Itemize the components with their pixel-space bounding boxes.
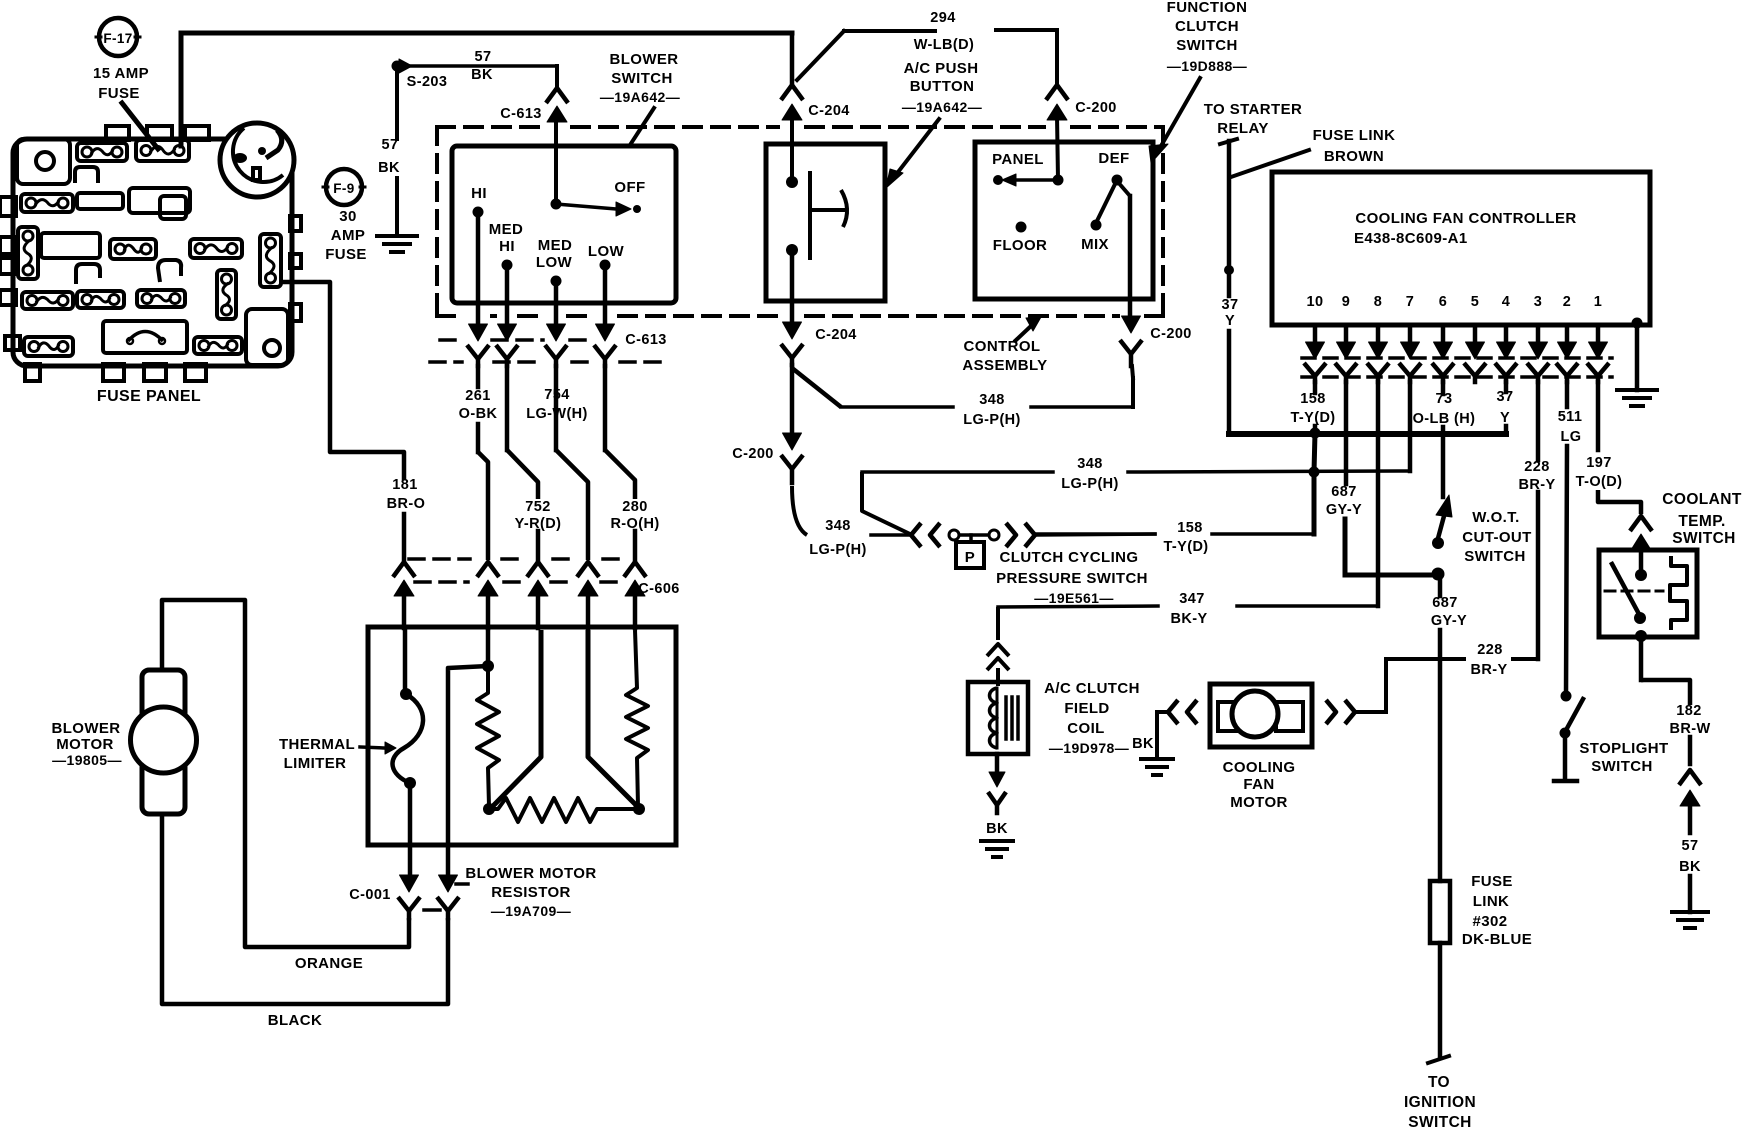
svg-text:F-9: F-9 [333,181,354,196]
svg-text:BROWN: BROWN [1324,148,1384,165]
svg-text:197: 197 [1586,455,1611,471]
svg-text:SWITCH: SWITCH [1176,37,1238,54]
svg-text:752: 752 [525,499,550,515]
svg-text:P: P [965,549,975,566]
svg-text:COOLING: COOLING [1223,759,1296,776]
svg-text:2: 2 [1563,294,1571,310]
svg-text:C-606: C-606 [638,581,680,597]
svg-text:228: 228 [1477,642,1502,658]
svg-text:228: 228 [1524,459,1549,475]
svg-text:LG-P(H): LG-P(H) [809,542,867,558]
svg-text:BK: BK [378,160,400,176]
svg-text:348: 348 [825,518,850,534]
svg-text:LG-P(H): LG-P(H) [1061,476,1119,492]
svg-text:F-17: F-17 [103,31,132,46]
svg-text:6: 6 [1439,294,1447,310]
svg-text:158: 158 [1177,520,1202,536]
svg-text:BK: BK [471,67,493,83]
svg-text:SWITCH: SWITCH [611,70,673,87]
svg-text:SWITCH: SWITCH [1672,530,1736,547]
svg-text:C-613: C-613 [625,332,667,348]
svg-text:C-200: C-200 [732,446,774,462]
svg-text:182: 182 [1676,703,1701,719]
svg-text:CLUTCH CYCLING: CLUTCH CYCLING [1000,549,1139,566]
svg-text:TO: TO [1428,1074,1450,1091]
svg-text:O-LB (H): O-LB (H) [1413,411,1476,427]
svg-text:1: 1 [1594,294,1602,310]
svg-text:LG-P(H): LG-P(H) [963,412,1021,428]
svg-text:GY-Y: GY-Y [1326,502,1362,518]
svg-text:261: 261 [465,388,490,404]
svg-text:W-LB(D): W-LB(D) [914,37,974,53]
svg-text:CUT-OUT: CUT-OUT [1462,529,1531,546]
svg-text:FUSE LINK: FUSE LINK [1313,127,1396,144]
svg-text:HI: HI [471,185,487,202]
svg-text:57: 57 [1682,838,1699,854]
svg-text:3: 3 [1534,294,1542,310]
svg-text:E438-8C609-A1: E438-8C609-A1 [1354,230,1468,247]
svg-text:#302: #302 [1473,913,1508,930]
svg-text:R-O(H): R-O(H) [610,516,659,532]
svg-text:T-Y(D): T-Y(D) [1290,410,1335,426]
svg-text:TO STARTER: TO STARTER [1204,101,1302,118]
svg-text:IGNITION: IGNITION [1404,1094,1476,1111]
svg-text:687: 687 [1432,595,1457,611]
svg-text:STOPLIGHT: STOPLIGHT [1579,740,1668,757]
svg-text:FUSE: FUSE [325,246,367,263]
svg-text:AMP: AMP [331,227,366,244]
svg-text:C-204: C-204 [815,327,857,343]
svg-text:FUSE: FUSE [1471,873,1513,890]
svg-text:BLOWER: BLOWER [51,720,120,737]
svg-text:T-Y(D): T-Y(D) [1163,539,1208,555]
svg-text:BK: BK [1679,859,1701,875]
svg-text:CONTROL: CONTROL [964,338,1041,355]
svg-text:LINK: LINK [1473,893,1510,910]
svg-text:A/C CLUTCH: A/C CLUTCH [1044,680,1140,697]
svg-text:Y-R(D): Y-R(D) [515,516,562,532]
svg-text:C-613: C-613 [500,106,542,122]
svg-text:RELAY: RELAY [1217,120,1268,137]
svg-text:Y: Y [1500,410,1510,426]
svg-text:348: 348 [979,392,1004,408]
svg-text:30: 30 [339,208,357,225]
svg-text:FIELD: FIELD [1064,700,1109,717]
svg-text:—19A709—: —19A709— [491,903,571,919]
svg-text:8: 8 [1374,294,1382,310]
svg-text:—19E561—: —19E561— [1034,590,1113,606]
svg-text:BK: BK [986,821,1008,837]
svg-text:FLOOR: FLOOR [993,237,1048,254]
svg-text:LOW: LOW [536,254,573,271]
svg-text:O-BK: O-BK [459,406,498,422]
svg-text:294: 294 [930,10,955,26]
svg-text:W.O.T.: W.O.T. [1472,509,1519,526]
svg-text:FUNCTION: FUNCTION [1167,0,1248,16]
svg-text:BR-Y: BR-Y [1470,662,1507,678]
svg-text:—19A642—: —19A642— [902,99,982,115]
svg-text:MED: MED [489,221,524,238]
svg-text:MOTOR: MOTOR [1230,794,1288,811]
svg-text:S-203: S-203 [407,74,448,90]
svg-text:LIMITER: LIMITER [284,755,347,772]
svg-text:57: 57 [475,49,492,65]
svg-text:687: 687 [1331,484,1356,500]
svg-text:280: 280 [622,499,647,515]
svg-text:BLACK: BLACK [268,1012,323,1029]
svg-text:TEMP.: TEMP. [1678,513,1725,530]
svg-text:37: 37 [1222,297,1239,313]
svg-text:RESISTOR: RESISTOR [491,884,571,901]
svg-text:DK-BLUE: DK-BLUE [1462,931,1532,948]
svg-text:COOLING FAN CONTROLLER: COOLING FAN CONTROLLER [1355,210,1576,227]
svg-text:Y: Y [1225,313,1235,329]
svg-text:DEF: DEF [1098,150,1129,167]
svg-text:SWITCH: SWITCH [1464,548,1526,565]
svg-text:T-O(D): T-O(D) [1576,474,1623,490]
svg-text:THERMAL: THERMAL [279,736,355,753]
svg-text:5: 5 [1471,294,1479,310]
svg-text:7: 7 [1406,294,1414,310]
svg-text:BR-O: BR-O [387,496,426,512]
svg-text:PANEL: PANEL [992,151,1044,168]
svg-text:BLOWER: BLOWER [609,51,678,68]
svg-text:FAN: FAN [1243,776,1274,793]
svg-text:C-001: C-001 [349,887,391,903]
svg-text:BLOWER MOTOR: BLOWER MOTOR [465,865,596,882]
svg-text:181: 181 [392,477,417,493]
svg-text:SWITCH: SWITCH [1408,1114,1472,1131]
svg-text:—19A642—: —19A642— [600,89,680,105]
svg-text:BK: BK [1132,736,1154,752]
svg-text:FUSE: FUSE [98,85,140,102]
svg-text:—19D978—: —19D978— [1049,740,1129,756]
svg-text:SWITCH: SWITCH [1591,758,1653,775]
svg-text:LG: LG [1561,429,1582,445]
svg-text:BR-W: BR-W [1669,721,1710,737]
svg-text:4: 4 [1502,294,1510,310]
svg-text:MIX: MIX [1081,236,1109,253]
svg-text:COOLANT: COOLANT [1662,491,1742,508]
svg-text:FUSE PANEL: FUSE PANEL [97,388,201,405]
svg-text:A/C PUSH: A/C PUSH [904,60,979,77]
svg-text:10: 10 [1307,294,1324,310]
svg-text:ASSEMBLY: ASSEMBLY [962,357,1047,374]
svg-text:—19D888—: —19D888— [1167,58,1247,74]
svg-text:PRESSURE SWITCH: PRESSURE SWITCH [996,570,1148,587]
svg-text:MOTOR: MOTOR [56,736,114,753]
svg-text:347: 347 [1179,591,1204,607]
svg-text:LOW: LOW [588,243,625,260]
svg-text:C-204: C-204 [808,103,850,119]
svg-text:GY-Y: GY-Y [1431,613,1467,629]
svg-text:C-200: C-200 [1150,326,1192,342]
svg-text:9: 9 [1342,294,1350,310]
svg-text:MED: MED [538,237,573,254]
svg-text:15 AMP: 15 AMP [93,65,149,82]
svg-text:—19805—: —19805— [52,752,122,768]
svg-text:BK-Y: BK-Y [1170,611,1207,627]
svg-text:HI: HI [499,238,515,255]
svg-text:ORANGE: ORANGE [295,955,363,972]
svg-text:COIL: COIL [1067,720,1104,737]
svg-text:BUTTON: BUTTON [910,78,975,95]
svg-text:C-200: C-200 [1075,100,1117,116]
svg-text:511: 511 [1558,409,1583,425]
svg-text:348: 348 [1077,456,1102,472]
svg-text:57: 57 [382,137,399,153]
svg-text:OFF: OFF [614,179,645,196]
svg-text:CLUTCH: CLUTCH [1175,18,1239,35]
